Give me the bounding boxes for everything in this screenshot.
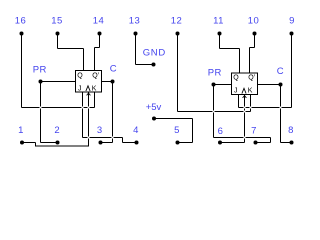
wire PR to U1 left [41, 81, 76, 83]
wire pin15 descent [57, 34, 59, 49]
pin 11 terminal dot [218, 32, 222, 36]
wire J step down [122, 138, 124, 143]
svg-text:Q’: Q’ [92, 72, 99, 79]
pin 8 terminal dot [290, 141, 294, 145]
pin 13 terminal dot [134, 32, 138, 36]
wire clock descent U2 [244, 95, 246, 143]
pin 9 terminal dot [290, 32, 294, 36]
wire C to pin8 horizontal [281, 142, 292, 144]
wire C to pin3 horizontal [101, 142, 113, 144]
wire pin1 to clock lower horizontal [36, 145, 89, 147]
wire Q stub of U2 [239, 49, 241, 74]
flip-flop U1 box [76, 71, 102, 93]
svg-text:J: J [78, 86, 82, 93]
pin 6 terminal dot [218, 141, 222, 145]
wire PR to U2 left [214, 84, 232, 86]
U2 clock arrowhead below box [243, 96, 247, 98]
wire J to pin4 horizontal [123, 142, 137, 144]
wire pin1 horizontal [22, 142, 36, 144]
GND terminal dot [152, 63, 156, 67]
wire J stub of U2 [238, 95, 240, 108]
wire U1 right to C [102, 81, 113, 83]
pin 7 terminal dot [254, 141, 258, 145]
pin 3 terminal dot [99, 141, 103, 145]
svg-text:K: K [92, 86, 97, 93]
wire PR descent right [213, 85, 215, 138]
pin 2 terminal dot [56, 141, 60, 145]
C junction dot right [279, 83, 283, 87]
svg-text:9: 9 [289, 16, 295, 27]
crossing marker C2 x pin9-line [280, 107, 282, 109]
pin 4 terminal dot [135, 141, 139, 145]
wire Q' stub of U2 [249, 48, 251, 74]
wire C descent left [112, 82, 114, 143]
PR junction dot right [212, 83, 216, 87]
PR junction dot left [39, 80, 43, 84]
wire J stub descent U1 [82, 92, 84, 138]
svg-text:5: 5 [174, 125, 180, 136]
svg-text:15: 15 [51, 16, 63, 27]
wire +5v horizontal [154, 118, 193, 120]
wire pin7 horizontal [256, 142, 271, 144]
+5v terminal dot [152, 117, 156, 121]
crossing marker C x J-line [112, 137, 114, 139]
svg-text:10: 10 [248, 16, 260, 27]
svg-text:7: 7 [251, 126, 257, 137]
pin 16 terminal dot [20, 32, 24, 36]
wire pin1 step down [35, 143, 37, 147]
C junction dot left [111, 80, 115, 84]
wire clock descent U1 [88, 92, 90, 146]
wire U2 right to C [258, 84, 281, 86]
svg-text:GND: GND [143, 48, 166, 59]
crossing marker clk2 x pin9-line [244, 107, 246, 109]
wire PR descent left [40, 82, 42, 143]
crossing marker K2 x pin9-line [250, 107, 252, 109]
wire pin7 jog up [270, 138, 272, 143]
wire pin9 descent [291, 34, 293, 108]
crossing marker clk2 x PR2-line [244, 137, 246, 139]
svg-text:Q: Q [77, 72, 83, 79]
svg-text:12: 12 [171, 16, 183, 27]
wire pin13 to GND horizontal [136, 64, 154, 66]
wire J horizontal U1 [83, 137, 123, 139]
pin 14 terminal dot [98, 32, 102, 36]
U1 clock arrowhead below box [87, 93, 91, 95]
wire C descent right [280, 85, 282, 143]
wire K stub of U2 [250, 95, 252, 112]
wire pin13 descent [135, 34, 137, 65]
svg-text:K: K [248, 88, 253, 95]
wire PR horizontal right [214, 137, 271, 139]
svg-text:C: C [277, 66, 284, 77]
wire pin12 to K horizontal [178, 111, 251, 113]
svg-text:PR: PR [33, 65, 47, 76]
crossing marker PR x K-line [40, 107, 42, 109]
crossing marker clk x K-line [88, 107, 90, 109]
svg-text:6: 6 [218, 126, 224, 137]
svg-text:4: 4 [133, 125, 139, 136]
svg-text:Q’: Q’ [248, 74, 255, 81]
wire clock to pin6 horizontal [220, 142, 245, 144]
wire Q' stub of U1 [94, 48, 96, 71]
wire pin16 descent [21, 34, 23, 108]
svg-text:3: 3 [97, 125, 103, 136]
pin 10 terminal dot [253, 32, 257, 36]
svg-text:13: 13 [129, 16, 141, 27]
svg-text:8: 8 [288, 125, 294, 136]
wire pin9 to J horizontal [239, 107, 292, 109]
pin 5 terminal dot [176, 141, 180, 145]
pin 12 terminal dot [176, 32, 180, 36]
wire pin11 to Q horizontal [220, 48, 240, 50]
svg-text:J: J [234, 88, 238, 95]
svg-text:16: 16 [15, 16, 27, 27]
wire pin15 to Q horizontal [58, 48, 84, 50]
svg-text:1: 1 [18, 125, 24, 136]
U1 clock caret [86, 86, 90, 91]
crossing marker clk x J-line [88, 137, 90, 139]
wire pin16 to K horizontal [22, 107, 95, 109]
flip-flop U2 box [232, 73, 258, 95]
U2 clock caret [242, 88, 246, 93]
wire pin10 to Q' horizontal [250, 47, 255, 49]
wire +5v descent [192, 119, 194, 143]
wire pin14 to Q' horizontal [95, 47, 100, 49]
crossing marker PR2 x pin12-line [213, 111, 215, 113]
wire pin12 descent [177, 34, 179, 112]
pin 15 terminal dot [56, 32, 60, 36]
wire pin11 descent [219, 34, 221, 49]
wire Q stub of U1 [83, 49, 85, 71]
wire pin10 descent [254, 34, 256, 48]
svg-text:PR: PR [208, 68, 222, 79]
svg-text:Q: Q [233, 74, 239, 81]
wire PR to pin2 horizontal [41, 142, 58, 144]
svg-text:11: 11 [213, 16, 224, 27]
wire pin14 descent [99, 34, 101, 48]
svg-text:C: C [110, 64, 117, 75]
svg-text:2: 2 [54, 125, 60, 136]
wire +5v to pin5 horizontal [178, 142, 193, 144]
svg-text:+5v: +5v [146, 102, 162, 113]
wire K stub of U1 [94, 92, 96, 108]
crossing marker J x K-line [82, 107, 84, 109]
svg-text:14: 14 [93, 16, 105, 27]
pin 1 terminal dot [20, 141, 24, 145]
crossing marker clk2 x pin12-line [244, 111, 246, 113]
